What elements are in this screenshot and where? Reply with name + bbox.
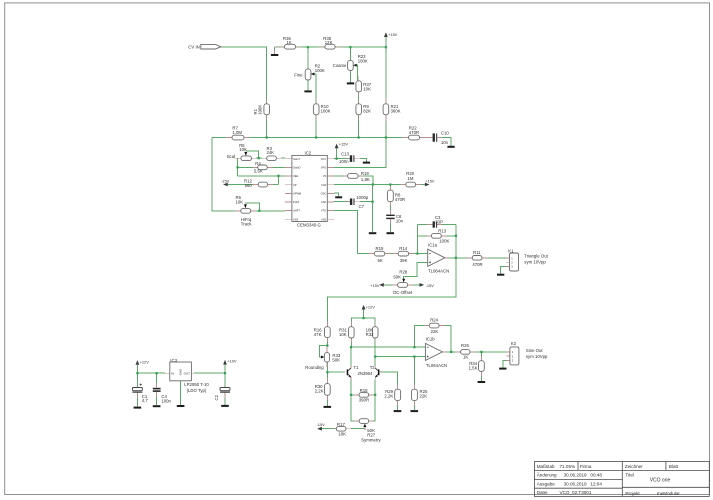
- wire +15V stem at VCC: [336, 148, 338, 159]
- svg-text:100n: 100n: [161, 398, 171, 403]
- wire +15V stem top: [385, 37, 387, 48]
- pot R33 wiper arrow: [321, 356, 324, 359]
- wire R32 bottom / T2 collector: [374, 338, 376, 357]
- svg-text:Firma: Firma: [580, 464, 592, 469]
- R24 leads: [425, 325, 430, 327]
- svg-text:OUT: OUT: [184, 372, 191, 376]
- R11 leads: [467, 257, 472, 259]
- wire C1 stem: [136, 373, 138, 387]
- node IC1a output: [455, 257, 457, 259]
- op-amp IC1b triangle: [425, 343, 442, 360]
- wire VTO to R15: [334, 211, 374, 254]
- svg-text:4,7: 4,7: [142, 398, 149, 403]
- electrolytic capacitor C2: [220, 388, 230, 393]
- capacitor C10 plates: [433, 133, 435, 141]
- wire R29 ground stem: [397, 401, 399, 411]
- node scal wiper/R3: [258, 157, 260, 159]
- IC3 pin stubs: [165, 372, 170, 374]
- svg-text:00:48: 00:48: [590, 473, 602, 478]
- node feedback/noninv IC1a: [416, 253, 418, 255]
- wire feedback left vertical: [416, 225, 418, 254]
- ground below C4: [153, 405, 161, 407]
- C10 leads: [426, 137, 433, 139]
- wire triangle to shaper long route: [327, 258, 456, 327]
- resistor R17: [336, 426, 346, 431]
- pot R23 wiper arrow: [353, 64, 357, 67]
- wire Fine pot top: [307, 47, 309, 69]
- svg-text:GND: GND: [179, 369, 183, 375]
- wire IC1b noninv row: [351, 346, 425, 348]
- svg-text:Symmetry: Symmetry: [361, 438, 381, 443]
- svg-text:R26: R26: [461, 343, 469, 348]
- R15 leads: [369, 253, 374, 255]
- node R21 summing: [385, 136, 387, 138]
- wire Scal wiper loop: [246, 151, 259, 158]
- T1 pins: [350, 365, 352, 368]
- ground at R36 input: [271, 54, 278, 56]
- svg-text:VLR: VLR: [321, 183, 326, 187]
- C2 bottom pin: [224, 393, 226, 398]
- R32 leads: [374, 322, 376, 327]
- svg-text:360K: 360K: [391, 108, 401, 113]
- transistor T1 base bar: [347, 369, 349, 375]
- R4 leads: [253, 166, 258, 168]
- R27 leads: [354, 420, 359, 422]
- pot R2 wiper arrow: [311, 73, 315, 76]
- wire OSC pin stub: [334, 193, 338, 196]
- svg-text:Blatt: Blatt: [669, 464, 679, 469]
- svg-text:1,5K: 1,5K: [469, 366, 478, 371]
- wire R12 right: [272, 184, 278, 186]
- svg-text:R14: R14: [399, 246, 407, 251]
- wire T2 emitter drop: [374, 379, 376, 394]
- resistor R15: [374, 251, 385, 256]
- power +15V arrow left of R28: [379, 283, 384, 287]
- wire R31 bottom: [350, 338, 352, 347]
- node R35/R23 top: [349, 46, 351, 48]
- wire T1 emitter drop: [350, 379, 352, 394]
- svg-text:100K: 100K: [358, 58, 368, 63]
- R28 leads: [393, 284, 398, 286]
- R22 leads: [403, 137, 409, 139]
- resistor R7: [232, 135, 244, 140]
- capacitor C4 plates: [153, 388, 161, 390]
- resistor R34: [479, 361, 485, 372]
- wire R16 to R33 junction: [326, 338, 328, 346]
- connector K2: [510, 347, 519, 365]
- wire IC1a output to R11: [447, 257, 472, 259]
- wire C1 ground stem: [136, 393, 138, 407]
- power -15V arrow right of R28: [420, 283, 425, 287]
- potentiometer R28 body: [398, 283, 408, 288]
- R2 wiper lead: [311, 73, 315, 75]
- R9 leads: [358, 99, 360, 104]
- svg-text:IC1b: IC1b: [426, 336, 436, 341]
- svg-text:R32: R32: [366, 332, 374, 337]
- node R4 branch: [237, 166, 239, 168]
- R1 leads: [266, 98, 268, 104]
- R30 leads: [326, 379, 328, 384]
- op-amp IC1b input marks: [427, 347, 429, 357]
- R34 leads: [480, 356, 482, 361]
- svg-text:1K: 1K: [463, 354, 468, 359]
- wire R9 bottom: [358, 115, 360, 138]
- R6 wiper pin: [244, 204, 246, 208]
- wire R1 bottom: [266, 115, 268, 138]
- R10 leads: [315, 98, 317, 104]
- node R1 summing: [266, 136, 268, 138]
- wire T1 emitter to R27 left: [351, 395, 354, 421]
- node R24/noninv IC1b: [413, 346, 415, 348]
- svg-text:1,0M: 1,0M: [232, 130, 242, 135]
- svg-text:+12V: +12V: [366, 305, 376, 310]
- transistor T2 C/E lines: [375, 368, 378, 377]
- R23 wiper lead: [353, 64, 356, 66]
- svg-text:C10: C10: [441, 130, 449, 135]
- svg-text:VS: VS: [323, 174, 327, 178]
- svg-text:OSC: OSC: [321, 191, 327, 195]
- R27 wiper pin: [364, 427, 366, 430]
- node T2 collector row: [374, 356, 376, 358]
- svg-text:22K: 22K: [420, 394, 428, 399]
- potentiometer R5 body: [241, 156, 252, 161]
- wire Scal pot left drop: [237, 158, 239, 176]
- wire R28 wiper riser: [404, 277, 418, 282]
- ground below IC3: [177, 405, 185, 407]
- wire left column down: [212, 138, 236, 211]
- wire Coarse wiper to R37: [355, 65, 358, 81]
- capacitor C8 plates: [386, 215, 395, 216]
- svg-text:VEE: VEE: [293, 174, 298, 178]
- R33 leads: [326, 346, 328, 353]
- wire R28 left: [384, 284, 393, 286]
- node +12V/C1: [136, 372, 138, 374]
- IC2 right pin stubs: [327, 158, 334, 160]
- resistor R14: [398, 251, 409, 256]
- wire R17 to wiper node: [351, 428, 365, 430]
- svg-text:IN: IN: [171, 372, 174, 376]
- wire C13 right to ground: [360, 159, 367, 162]
- node R26/R34: [480, 351, 482, 353]
- R12 leads: [253, 184, 258, 186]
- wire R33 bottom to base row: [326, 362, 328, 372]
- capacitor C13 plates: [350, 155, 352, 162]
- power +15V arrow top rail: [384, 32, 388, 37]
- svg-text:1000p: 1000p: [356, 195, 369, 200]
- svg-text:(LDO Typ): (LDO Typ): [187, 388, 207, 393]
- svg-text:K1: K1: [508, 248, 514, 253]
- svg-text:560: 560: [245, 183, 253, 188]
- node R33/base row: [326, 371, 328, 373]
- wire C7 right to node: [360, 201, 373, 203]
- svg-text:22K: 22K: [431, 329, 439, 334]
- wire R36 ground stub: [274, 47, 276, 53]
- R31 leads: [350, 322, 352, 327]
- R25 leads: [413, 385, 415, 390]
- ground at C13: [363, 162, 370, 164]
- resistor R9: [356, 104, 362, 115]
- resistor R21: [383, 104, 389, 115]
- wire R21 bottom: [385, 115, 387, 138]
- pot R5 wiper arrow: [244, 152, 247, 156]
- svg-text:R18: R18: [360, 388, 368, 393]
- ground below C1: [134, 407, 142, 409]
- potentiometer R33 body: [324, 353, 329, 362]
- node R9 summing: [358, 136, 360, 138]
- R36 ground pin: [274, 50, 276, 54]
- svg-text:470R: 470R: [409, 130, 419, 135]
- node C4: [156, 372, 158, 374]
- power +10V arrow regulator: [223, 360, 227, 365]
- svg-text:12:04: 12:04: [590, 481, 602, 486]
- node +10V/C2: [224, 372, 226, 374]
- svg-text:1K: 1K: [287, 40, 292, 45]
- node R36/R2 top: [307, 46, 309, 48]
- IC1a output stub: [445, 257, 449, 259]
- ground at C8: [387, 232, 395, 234]
- resistor R32: [372, 327, 378, 338]
- resistor R22: [409, 135, 420, 140]
- svg-text:R11: R11: [473, 250, 481, 255]
- wire +12V stem regulator: [136, 365, 138, 373]
- wire CAP pin to C7: [334, 201, 350, 203]
- wire R24 right drop: [444, 326, 451, 352]
- wire R26 to K2: [470, 351, 507, 353]
- C1 bottom pin: [136, 393, 138, 398]
- svg-text:CV IN: CV IN: [188, 45, 199, 50]
- transistor T1 emitter arrow: [349, 375, 352, 378]
- R5 leads: [235, 157, 241, 159]
- wire VLF row: [334, 184, 406, 186]
- wire Fine pot ground stem: [307, 80, 309, 90]
- wire R13 right: [445, 235, 456, 237]
- svg-text:100K: 100K: [258, 105, 263, 115]
- wire top rail R36-R35-+15V: [296, 46, 386, 48]
- resistor R18: [359, 393, 369, 398]
- wire R37 to R9: [358, 92, 360, 104]
- resistor R16: [325, 327, 331, 338]
- node T1 emitter/R18: [350, 394, 352, 396]
- svg-text:VSS: VSS: [321, 217, 326, 221]
- resistor R19: [348, 174, 359, 179]
- svg-text:50K: 50K: [393, 274, 401, 279]
- wire R19 right corner down: [363, 176, 373, 185]
- svg-text:sym 10Vpp: sym 10Vpp: [524, 260, 546, 265]
- svg-text:5K: 5K: [378, 258, 383, 263]
- wire IC3 gnd stem: [180, 381, 182, 405]
- wire R6 row to pin UHFT: [251, 210, 285, 212]
- svg-text:2N3904: 2N3904: [358, 371, 374, 376]
- svg-text:+15V: +15V: [425, 179, 435, 184]
- svg-text:VCO_02.T3001: VCO_02.T3001: [560, 490, 592, 495]
- svg-text:-15V: -15V: [426, 283, 435, 288]
- svg-text:47K: 47K: [314, 332, 322, 337]
- wire supply rail R31 R32: [351, 318, 375, 327]
- wire IC1b inv row: [375, 356, 425, 358]
- svg-text:2,2K: 2,2K: [384, 394, 393, 399]
- svg-text:2,2K: 2,2K: [315, 388, 324, 393]
- T2 pins: [374, 365, 376, 368]
- ground at K1: [497, 274, 504, 276]
- node VLF/R8: [389, 183, 391, 185]
- svg-text:10n: 10n: [441, 140, 449, 145]
- svg-text:12K: 12K: [325, 40, 333, 45]
- svg-text:470R: 470R: [395, 197, 405, 202]
- electrolytic capacitor C1: [132, 384, 142, 393]
- svg-text:Projekt: Projekt: [625, 491, 640, 496]
- node R16/R33: [326, 345, 328, 347]
- svg-text:UHFT: UHFT: [293, 209, 300, 213]
- wire feedback right vertical: [455, 225, 457, 258]
- svg-text:100K: 100K: [315, 68, 325, 73]
- R36 leads: [275, 46, 285, 48]
- resistor R30: [325, 384, 331, 396]
- wire R30 ground stem: [326, 395, 328, 406]
- svg-text:+15V: +15V: [370, 283, 380, 288]
- svg-text:VCO one: VCO one: [650, 478, 671, 484]
- power +12V arrow regulator: [136, 360, 140, 365]
- R29 leads: [397, 385, 399, 390]
- power +15V arrow at R20: [425, 183, 430, 187]
- R7 leads: [226, 137, 232, 139]
- R26 leads: [456, 351, 461, 353]
- svg-text:Zeichner: Zeichner: [625, 464, 643, 469]
- wire R14 to IC1a: [409, 253, 428, 255]
- svg-text:1,8K: 1,8K: [361, 177, 370, 182]
- svg-text:GainT: GainT: [293, 157, 300, 161]
- potentiometer R2 body: [305, 69, 311, 80]
- R21 leads: [385, 98, 387, 104]
- wire R33 wiper loop: [320, 346, 328, 357]
- svg-text:VCC: VCC: [321, 157, 327, 161]
- wire C4 ground stem: [156, 392, 158, 405]
- R5 wiper pin: [245, 152, 247, 155]
- power +15V arrow at VCC: [335, 144, 339, 149]
- resistor R35: [325, 44, 335, 49]
- svg-text:-15V: -15V: [317, 422, 326, 427]
- svg-text:Änderung: Änderung: [537, 472, 557, 478]
- svg-text:Triangle Out: Triangle Out: [524, 254, 548, 259]
- svg-text:C13: C13: [341, 152, 349, 157]
- node T1 collector row: [350, 346, 352, 348]
- svg-text:Scal: Scal: [227, 154, 235, 159]
- wire Coarse pot top: [349, 47, 351, 60]
- wire regulator output row: [194, 372, 225, 374]
- svg-text:10n: 10n: [396, 219, 404, 224]
- wire R25 riser: [413, 357, 415, 390]
- wire R34 top: [480, 352, 482, 361]
- ground at C7 node: [369, 232, 377, 234]
- wire IC1b output: [445, 351, 461, 353]
- wire R12 to -15V: [228, 184, 254, 186]
- power -15V arrow at R17: [317, 427, 322, 431]
- svg-text:UPWM: UPWM: [293, 191, 301, 195]
- transistor T2 emitter arrow: [375, 375, 378, 378]
- title block: [534, 462, 709, 497]
- svg-text:33P: 33P: [435, 220, 443, 225]
- svg-text:VTO: VTO: [321, 209, 326, 213]
- title block text: [537, 464, 681, 496]
- node C7/ground: [372, 201, 374, 203]
- C3 leads: [427, 224, 433, 226]
- wire R20 to +15V arrow: [420, 184, 425, 186]
- svg-text:TL064ACN: TL064ACN: [426, 363, 447, 368]
- svg-text:K2: K2: [511, 341, 517, 346]
- wire R21 top: [385, 47, 387, 104]
- svg-text:30.06.2019: 30.06.2019: [564, 473, 587, 478]
- svg-text:+12V: +12V: [140, 360, 150, 365]
- node T2 emitter/R18: [374, 394, 376, 396]
- R19 leads: [343, 175, 348, 177]
- wire R8 to C8: [389, 202, 391, 215]
- wire C10 right to ground: [438, 138, 451, 146]
- node R13/right vertical: [455, 235, 457, 237]
- svg-text:Ausgabe: Ausgabe: [537, 481, 556, 486]
- svg-text:5,6K: 5,6K: [254, 169, 263, 174]
- svg-text:18K: 18K: [338, 431, 346, 436]
- node VCC/+15V: [336, 158, 338, 160]
- wire VCC pin to C13: [334, 158, 350, 160]
- resistor R8: [387, 190, 393, 202]
- svg-text:IC3: IC3: [170, 358, 177, 363]
- R3 leads: [262, 157, 267, 159]
- svg-text:R17: R17: [337, 422, 345, 427]
- wire Fine wiper to R10: [313, 74, 316, 104]
- C8 leads: [389, 210, 391, 215]
- svg-text:39K: 39K: [400, 258, 408, 263]
- wire T2 base to R29: [379, 372, 397, 389]
- R35 leads: [318, 46, 325, 48]
- wire VEE row: [238, 175, 285, 177]
- C7 leads: [346, 201, 350, 203]
- svg-text:Sine Out: Sine Out: [526, 348, 544, 353]
- resistor R12: [258, 182, 267, 187]
- wire +12V stem shaper: [363, 310, 365, 318]
- transistor T1 C/E lines: [348, 368, 351, 377]
- resistor R20: [406, 182, 416, 187]
- resistor R26: [461, 350, 470, 355]
- node R10 summing: [315, 136, 317, 138]
- resistor R25: [412, 389, 418, 400]
- resistor R1: [264, 104, 270, 115]
- svg-text:TL064ACN: TL064ACN: [428, 269, 449, 274]
- wire summing row left: [212, 137, 232, 139]
- svg-text:10K: 10K: [339, 332, 347, 337]
- resistor R24: [429, 323, 439, 328]
- ground below R29: [394, 410, 402, 412]
- node +15V rail/R21: [385, 46, 387, 48]
- node VEE/R12: [277, 175, 279, 177]
- svg-text:Coarse: Coarse: [333, 63, 347, 68]
- wire summing row right: [244, 137, 409, 139]
- R6 leads: [236, 210, 241, 212]
- ground below R25: [411, 410, 419, 412]
- wire R3 to pin GainT: [281, 157, 285, 159]
- svg-text:71.05%: 71.05%: [560, 464, 576, 469]
- svg-text:50K: 50K: [332, 358, 340, 363]
- ground below Fine pot: [304, 90, 311, 92]
- svg-text:Datei: Datei: [537, 490, 548, 495]
- wire T1 collector riser: [350, 347, 352, 366]
- wire base row to R30: [326, 372, 328, 383]
- R20 leads: [401, 184, 406, 186]
- svg-text:Track: Track: [241, 221, 252, 226]
- resistor R10: [313, 104, 319, 115]
- node IC1b output: [450, 351, 452, 353]
- R8 leads: [389, 186, 391, 191]
- resistor R3: [267, 156, 277, 161]
- svg-text:+15V: +15V: [339, 142, 349, 147]
